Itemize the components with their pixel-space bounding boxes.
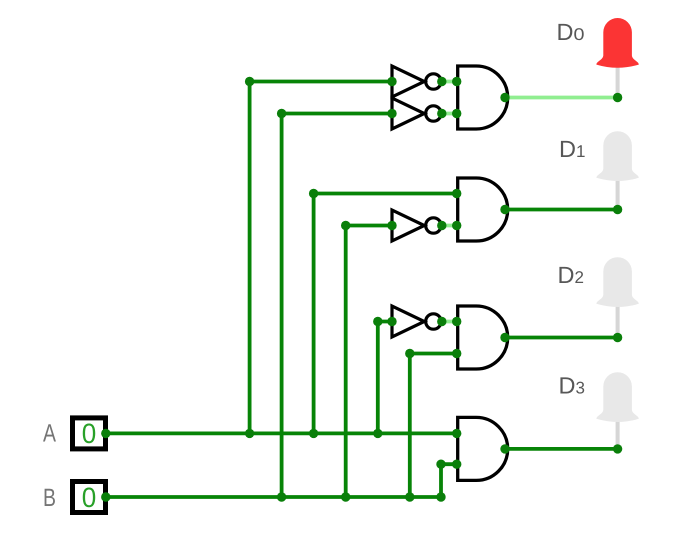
node NOT3 output	[437, 221, 446, 230]
wire NOT2 output to AND1 (high)	[441, 112, 458, 116]
not-gate U4 (A inverter, feeds AND3 top)	[392, 306, 441, 337]
node AND1 input top	[452, 77, 461, 86]
node NOT4 input	[387, 317, 396, 326]
input A box	[73, 418, 106, 449]
node junction A x249	[245, 429, 254, 438]
svg-text:B: B	[43, 484, 56, 512]
svg-text:D2: D2	[558, 262, 584, 288]
wire input B horizontal	[104, 495, 441, 499]
not-gate U2 (B inverter, feeds AND1 bottom)	[392, 98, 441, 129]
node AND3 input top	[452, 317, 461, 326]
LED D2 (off, gray)	[596, 257, 638, 307]
LED D1 lead	[616, 181, 620, 210]
node NOT2 output	[437, 109, 446, 118]
svg-text:A: A	[43, 420, 56, 448]
wire AND2 output to LED D1	[505, 208, 618, 212]
LED D1 (off, gray)	[596, 131, 638, 181]
and-gate G3 (output D2)	[458, 306, 508, 369]
LED D3 (off, gray)	[596, 372, 638, 422]
wire B branch to NOT3	[346, 226, 392, 498]
and-gate G1 (output D0)	[458, 66, 508, 129]
wire NOT3 output to AND2 (high)	[441, 224, 458, 228]
node AND4 output	[500, 444, 509, 453]
node AND4 input bottom	[452, 460, 461, 469]
and-gate G2 (output D1)	[458, 178, 508, 241]
wire B branch to NOT2	[282, 114, 392, 498]
node NOT4 output	[437, 317, 446, 326]
node LED D0	[613, 93, 622, 102]
svg-text:0: 0	[82, 482, 97, 513]
node corner AND3 bottom	[405, 349, 414, 358]
node junction A x377	[373, 429, 382, 438]
LED D3 lead	[616, 422, 620, 449]
node NOT2 input	[387, 109, 396, 118]
node A box output	[101, 429, 110, 438]
node LED D3	[613, 444, 622, 453]
svg-text:0: 0	[82, 418, 97, 449]
node AND2 output	[500, 205, 509, 214]
node corner NOT4	[373, 317, 382, 326]
node NOT3 input	[387, 221, 396, 230]
wire B jog to AND4 bottom input	[441, 464, 458, 497]
node corner NOT3	[341, 221, 350, 230]
node corner NOT2	[277, 109, 286, 118]
node AND2 input bottom	[452, 221, 461, 230]
node corner NOT1	[245, 77, 254, 86]
wire input A horizontal	[104, 431, 458, 435]
node corner B x441	[436, 492, 445, 501]
node B box output	[101, 492, 110, 501]
node NOT1 output	[437, 77, 446, 86]
input B box	[73, 482, 106, 513]
node LED D1	[613, 205, 622, 214]
not-gate U3 (B inverter, feeds AND2 bottom)	[392, 210, 441, 241]
wire A branch to AND2 top input	[314, 194, 458, 434]
wire NOT4 output to AND3 (high)	[441, 320, 458, 324]
node junction B x345	[341, 492, 350, 501]
LED D0 (on, red)	[596, 18, 638, 68]
node corner AND2 top	[309, 189, 318, 198]
LED D0 lead	[616, 68, 620, 98]
node corner AND4 bottom	[436, 460, 445, 469]
node AND1 output	[500, 93, 509, 102]
node AND2 input top	[452, 189, 461, 198]
wire A branch to NOT4	[378, 322, 392, 434]
wire AND3 output to LED D2	[505, 336, 618, 340]
node NOT1 input	[387, 77, 396, 86]
node junction A x313	[309, 429, 318, 438]
wire AND4 output to LED D3	[505, 447, 618, 451]
wire A branch to NOT1	[250, 82, 392, 434]
node LED D2	[613, 333, 622, 342]
node AND4 input top	[452, 429, 461, 438]
wire NOT1 output to AND1 (high)	[441, 80, 458, 84]
node AND3 input bottom	[452, 349, 461, 358]
node AND3 output	[500, 333, 509, 342]
LED D2 lead	[616, 307, 620, 338]
node junction B x281	[277, 492, 286, 501]
svg-text:D0: D0	[557, 19, 585, 45]
node AND1 input bottom	[452, 109, 461, 118]
and-gate G4 (output D3)	[458, 417, 508, 480]
svg-text:D1: D1	[559, 136, 585, 162]
wire AND1 output to LED D0 (high)	[505, 96, 618, 100]
not-gate U1 (A inverter, feeds AND1 top)	[392, 66, 441, 97]
wire B branch to AND3 bottom input	[410, 354, 458, 498]
node junction B x409	[405, 492, 414, 501]
svg-text:D3: D3	[559, 373, 585, 399]
